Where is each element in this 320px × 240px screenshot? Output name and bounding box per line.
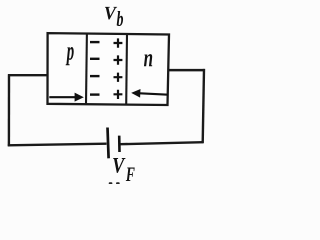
- minus charge row 2: [90, 58, 100, 60]
- divider between p region and depletion region: [85, 33, 88, 104]
- wire from box right edge going right: [168, 69, 205, 72]
- plus charge row 2: [114, 55, 123, 64]
- arrow in p region pointing right: [49, 93, 84, 102]
- label VF (forward bias voltage): [113, 158, 134, 181]
- minus charge row 1: [90, 41, 100, 43]
- label n (n-type region): [144, 54, 152, 66]
- minus charge row 4: [90, 93, 100, 95]
- battery negative plate (short): [118, 136, 121, 152]
- plus charge row 1: [114, 38, 123, 47]
- plus charge row 4: [114, 90, 123, 99]
- cut-off print marks at bottom edge: [109, 182, 120, 184]
- wire bottom left segment to battery: [8, 144, 107, 146]
- wire left vertical segment: [8, 74, 11, 146]
- plus charge row 3: [114, 73, 123, 82]
- divider between depletion region and n region: [125, 34, 128, 105]
- label Vb (junction barrier voltage): [105, 7, 123, 26]
- label p (p-type region): [66, 47, 74, 65]
- wire right vertical segment: [203, 69, 204, 143]
- p-n junction block outline: [48, 33, 170, 105]
- battery positive plate (long): [108, 128, 109, 159]
- wire bottom right segment from battery: [120, 142, 203, 144]
- wire from box left edge going left: [8, 74, 49, 76]
- arrow in n region pointing left: [131, 89, 168, 98]
- minus charge row 3: [90, 75, 100, 77]
